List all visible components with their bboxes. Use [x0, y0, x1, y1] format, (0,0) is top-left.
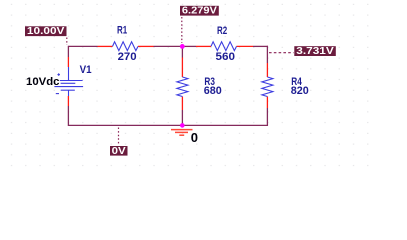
label R2 [217, 25, 227, 37]
svg-text:V1: V1 [80, 64, 92, 76]
ground 0 [171, 130, 193, 136]
wire bottom rail [68, 124, 268, 126]
junction node R1/R2/R3 [180, 44, 185, 49]
value 680 [204, 85, 222, 97]
bias voltage label 6.279V [180, 6, 219, 17]
wire R3 bottom to ground node [181, 110, 183, 126]
svg-text:3.731V: 3.731V [296, 46, 334, 57]
probe leader for 10.00V [66, 38, 68, 46]
label R3 [204, 76, 215, 88]
svg-text:R2: R2 [217, 25, 227, 37]
label R1 [117, 25, 127, 37]
wire R2 to right corner [253, 45, 268, 47]
resistor R2 [196, 42, 253, 51]
wire top rail left (V1 top corner to R1) [68, 45, 97, 47]
label 0 (ground net) [191, 130, 198, 145]
resistor R4 [262, 63, 273, 108]
probe leader for 3.731V [269, 52, 294, 54]
wire right corner down to R4 [266, 46, 268, 63]
value 270 [118, 51, 137, 63]
probe leader for 6.279V [181, 17, 183, 43]
wire R4 bottom to rail [266, 108, 268, 126]
value 560 [216, 51, 236, 63]
wire node to R2 [184, 45, 196, 47]
label V1 [80, 64, 92, 76]
wire node down to R3 [181, 46, 183, 57]
bias voltage label 0V [110, 146, 128, 157]
svg-text:6.279V: 6.279V [182, 6, 217, 17]
resistor R3 [177, 58, 188, 111]
wire V1 branch upper [67, 46, 69, 57]
junction node ground [180, 123, 185, 128]
wire V1 branch lower [67, 106, 69, 126]
wire top rail mid (R1 to node) [154, 45, 181, 47]
svg-text:560: 560 [216, 51, 236, 63]
value 10Vdc [26, 76, 60, 88]
voltage source V1 [54, 57, 83, 106]
label R4 [291, 76, 302, 88]
svg-text:R1: R1 [117, 25, 127, 37]
svg-text:680: 680 [204, 85, 222, 97]
svg-text:270: 270 [118, 51, 137, 63]
svg-text:0: 0 [191, 130, 198, 145]
bias voltage label 10.00V [25, 26, 67, 37]
svg-text:820: 820 [291, 85, 309, 97]
svg-text:10Vdc: 10Vdc [26, 76, 60, 88]
value 820 [291, 85, 309, 97]
svg-text:0V: 0V [112, 146, 126, 157]
bias voltage label 3.731V [294, 46, 336, 57]
svg-text:10.00V: 10.00V [27, 26, 65, 37]
resistor R1 [98, 42, 154, 51]
probe leader for 0V [118, 128, 120, 146]
